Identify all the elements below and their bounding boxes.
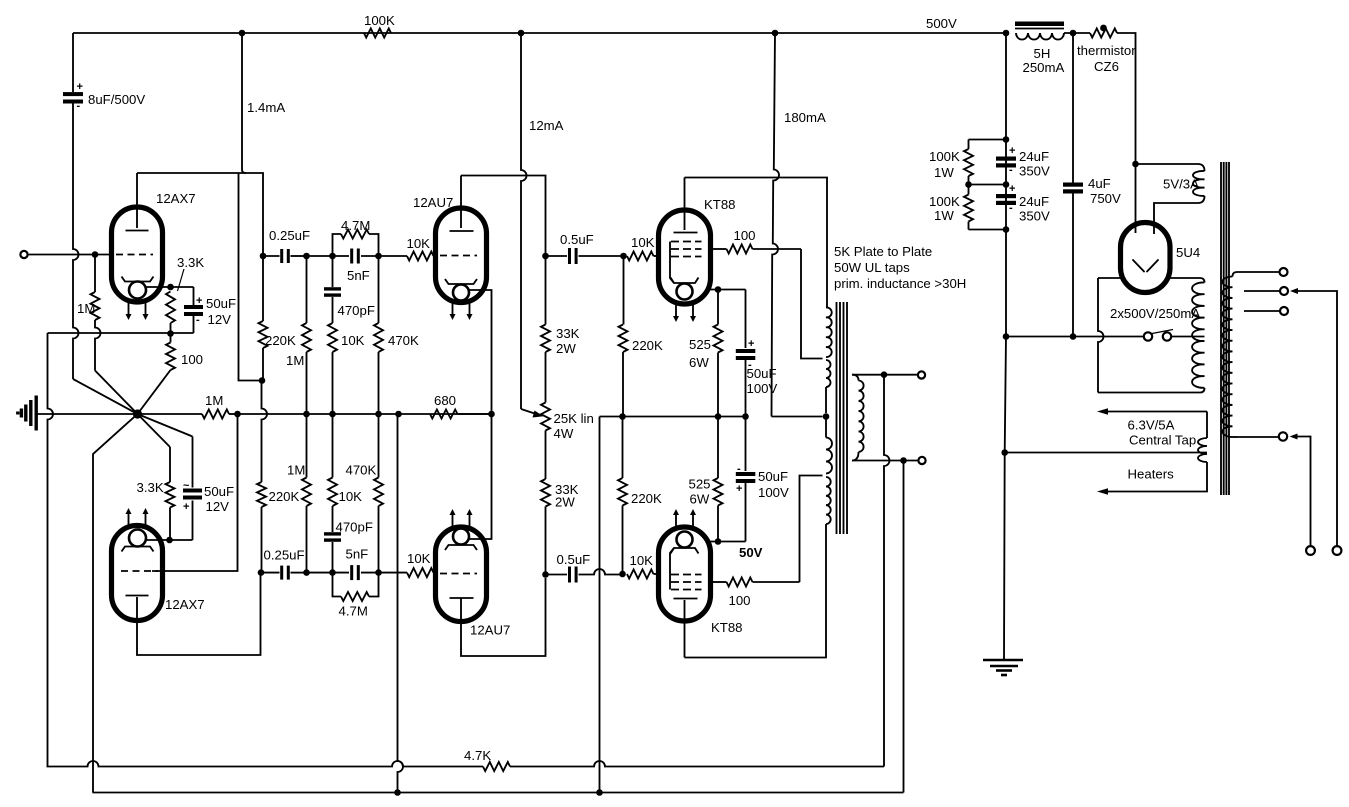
KT88 upper heater pin 1 — [675, 305, 677, 318]
switch contact 1 — [1144, 332, 1152, 340]
wire drop x397 (hops feedback bus) — [398, 414, 404, 793]
svg-text:10K: 10K — [339, 489, 363, 504]
svg-text:220K: 220K — [265, 333, 296, 348]
KT88 upper cathode hat — [671, 278, 699, 284]
wire KT88 upper screen node — [711, 289, 746, 291]
inductor choke 5H 250mA — [1016, 33, 1064, 40]
svg-text:4.7M: 4.7M — [339, 604, 368, 619]
transformer 5V/3A winding — [1193, 171, 1205, 196]
node 4.7M/5nF left — [329, 253, 336, 260]
wire choke to thermistor — [1064, 32, 1090, 34]
wire to 4.7M-B node — [307, 572, 333, 574]
12AU7 upper cathode hat — [445, 279, 477, 284]
svg-text:0.25uF: 0.25uF — [264, 548, 305, 563]
tube 5U4 envelope — [1121, 223, 1171, 293]
wire secondary bottom — [852, 460, 919, 462]
wire 5U4 right plate to HV top — [1170, 278, 1205, 283]
svg-text:10K: 10K — [631, 235, 655, 250]
svg-text:5K Plate to Plate: 5K Plate to Plate — [834, 244, 932, 259]
12AU7 lower cathode hat — [445, 545, 477, 550]
svg-text:~: ~ — [183, 480, 190, 492]
terminal primary tap 1 — [1280, 268, 1288, 276]
svg-text:50uF: 50uF — [206, 296, 236, 311]
node bias drop bottom — [596, 789, 603, 796]
node lower grid branch — [234, 411, 241, 418]
primary bottom arrow — [1290, 434, 1298, 440]
wire 50uF bottom to node wire — [193, 314, 195, 333]
5U4 plate right — [1147, 260, 1158, 272]
heater arrow top — [1097, 408, 1108, 414]
svg-text:-: - — [77, 100, 81, 112]
svg-text:10K: 10K — [407, 551, 431, 566]
terminal output bottom — [918, 457, 925, 464]
resistor 10K lower step — [332, 506, 334, 532]
wire 50uF-C to bias bus — [745, 358, 747, 417]
svg-text:2W: 2W — [556, 341, 576, 356]
wire choke core — [1015, 22, 1064, 27]
node junction 1.4mA branch — [239, 30, 246, 37]
svg-text:12AX7: 12AX7 — [156, 191, 196, 206]
svg-text:4.7K: 4.7K — [464, 748, 491, 763]
svg-text:12AU7: 12AU7 — [470, 623, 510, 638]
12AU7 upper cathode circle — [453, 285, 469, 301]
svg-text:5nF: 5nF — [347, 268, 370, 283]
svg-text:prim. inductance >30H: prim. inductance >30H — [834, 276, 966, 291]
node 3.3K/100 junction — [167, 330, 174, 337]
OPT primary winding upper — [826, 307, 832, 357]
resistor 100K 1W lower — [968, 185, 970, 195]
capacitor 5nF upper — [333, 255, 350, 257]
12AU7 lower grid dashes — [440, 573, 477, 575]
KT88 lower grid dashes row3 — [671, 589, 702, 591]
node 1M-B bottom — [303, 411, 310, 418]
KT88 lower heater pin 2 — [692, 513, 694, 526]
svg-text:3.3K: 3.3K — [137, 480, 164, 495]
svg-text:470K: 470K — [388, 333, 419, 348]
node 0.5uF upper left — [542, 253, 549, 260]
node 220K-B bottom (bias bus) — [619, 413, 626, 420]
terminal primary tap 2 — [1280, 287, 1288, 295]
svg-text:50W UL taps: 50W UL taps — [834, 260, 910, 275]
12AU7 upper anode lead — [460, 176, 462, 229]
node 220K KT88 upper — [620, 253, 627, 260]
svg-text:+: + — [1009, 145, 1015, 157]
svg-text:100K: 100K — [364, 13, 395, 28]
node bleeder mid left — [965, 181, 972, 188]
node coupling junction lower — [303, 569, 310, 576]
svg-text:4uF: 4uF — [1088, 176, 1111, 191]
svg-text:24uF: 24uF — [1019, 194, 1049, 209]
svg-text:5V/3A: 5V/3A — [1163, 177, 1199, 192]
node 0.25uF left — [260, 253, 267, 260]
KT88 lower anode lead — [684, 600, 686, 658]
wire KT88 upper anode to OPT — [685, 178, 828, 308]
svg-text:470pF: 470pF — [336, 520, 373, 535]
capacitor 50uF/100V upper — [745, 290, 747, 349]
svg-text:12AU7: 12AU7 — [413, 195, 453, 210]
svg-text:-: - — [1009, 202, 1013, 214]
capacitor 50uF/12V lower — [138, 414, 193, 437]
node drop-to-bottom junction — [395, 411, 402, 418]
svg-text:100: 100 — [181, 352, 203, 367]
power transformer core — [1220, 162, 1222, 495]
svg-text:10K: 10K — [407, 236, 431, 251]
wire switch to HV winding center — [1172, 336, 1205, 338]
wire thermistor to rectifier — [1117, 33, 1136, 164]
svg-text:-: - — [1009, 164, 1013, 176]
node OPT center tap — [823, 413, 830, 420]
svg-text:33K: 33K — [556, 326, 580, 341]
wire rectifier filament left — [1135, 164, 1137, 223]
wire cross-couple from upper anode — [239, 173, 263, 381]
resistor 680 — [430, 410, 458, 419]
wire 5V winding top — [1136, 164, 1205, 171]
node 470K-B bottom — [375, 411, 382, 418]
resistor 10K grid KT88 upper — [627, 252, 654, 261]
KT88 lower grid dashes row2 — [671, 581, 702, 583]
input terminal — [20, 251, 27, 258]
tube 12AX7 upper envelope — [112, 207, 163, 302]
svg-text:25K lin: 25K lin — [554, 411, 594, 426]
resistor 100 screen upper — [711, 248, 727, 250]
resistor 10K upper step — [332, 297, 334, 323]
12AX7 lower anode lead — [137, 573, 261, 655]
wire left drop x47 — [48, 333, 54, 767]
wire 12AU7 upper anode to 0.5uF node — [461, 176, 546, 254]
KT88 lower grid dashes row1 — [671, 574, 702, 576]
wire input to grid — [28, 254, 114, 256]
capacitor 0.25uF upper — [263, 255, 280, 257]
svg-text:+: + — [196, 295, 202, 307]
capacitor 470pF lower — [332, 542, 334, 573]
switch lever — [1152, 330, 1173, 334]
resistor 220K KT88 lower — [622, 417, 624, 479]
5U4 filament lead left — [1135, 223, 1137, 234]
wire 12AX7 lower grid cross-couple — [152, 414, 238, 571]
wire secondary ground drop — [903, 461, 905, 793]
svg-text:470pF: 470pF — [338, 303, 375, 318]
terminal primary tap 3 — [1280, 307, 1288, 315]
node bleeder top — [1003, 136, 1010, 143]
12AU7 lower heater pin 2 — [469, 513, 471, 526]
12AX7 upper anode lead — [136, 173, 138, 228]
svg-text:350V: 350V — [1019, 209, 1050, 224]
svg-text:1W: 1W — [934, 208, 954, 223]
capacitor 5nF lower — [333, 572, 350, 574]
12AX7 lower cathode circle — [129, 530, 146, 547]
svg-text:8uF/500V: 8uF/500V — [88, 92, 145, 107]
resistor 3.3K upper — [166, 292, 175, 324]
12AX7 lower heater pin 1 — [128, 512, 130, 525]
svg-text:3.3K: 3.3K — [177, 255, 204, 270]
capacitor 470pF upper — [332, 256, 334, 287]
node X drop bottom — [394, 789, 401, 796]
KT88 upper grid dashes row1 — [671, 241, 702, 243]
svg-text:525: 525 — [689, 477, 711, 492]
svg-text:50uF: 50uF — [204, 484, 234, 499]
12AX7 upper cathode hat — [122, 277, 154, 282]
tube 12AX7 lower envelope — [112, 526, 163, 621]
node screen junction upper — [715, 286, 722, 293]
node 12AU7 cathodes junction — [488, 411, 495, 418]
svg-text:220K: 220K — [631, 491, 662, 506]
transformer primary winding — [1233, 272, 1238, 277]
12AX7 upper heater pin 2 — [145, 303, 147, 316]
svg-text:5U4: 5U4 — [1176, 245, 1200, 260]
capacitor 0.25uF lower — [261, 572, 280, 574]
svg-text:750V: 750V — [1090, 191, 1121, 206]
KT88 lower cathode circle — [677, 532, 693, 548]
wire bleeder mid — [969, 184, 1007, 186]
wire bleeder top — [969, 139, 1007, 141]
ground symbol left — [35, 396, 38, 431]
node 220K KT88 lower — [619, 571, 626, 578]
node input grid junction — [92, 251, 99, 258]
svg-text:+: + — [748, 338, 754, 350]
wire cathode 12AX7 lower — [146, 539, 193, 541]
svg-text:525: 525 — [689, 337, 711, 352]
12AX7 lower heater pin 2 — [145, 512, 147, 525]
12AX7 upper cathode circle — [129, 282, 146, 299]
resistor 100K 1W upper — [968, 140, 970, 150]
wire KT88 lower screen node — [711, 541, 746, 543]
transformer HV winding 2x500V — [1192, 282, 1204, 387]
wire 4uF to switch wire — [1072, 193, 1074, 337]
capacitor 24uF/350V upper — [996, 157, 1016, 161]
wire feedback drop (hops secondary bottom) — [884, 375, 890, 767]
potentiometer 25K lin 4W — [545, 253, 547, 325]
wire 6.3V bottom — [1107, 462, 1207, 492]
capacitor 4uF/750V — [1063, 183, 1083, 187]
KT88 lower internal side rail — [670, 548, 674, 590]
wire feedback bus (4.7K) — [47, 761, 484, 766]
svg-text:5H: 5H — [1034, 46, 1051, 61]
svg-text:0.25uF: 0.25uF — [269, 228, 310, 243]
KT88 upper cathode circle — [677, 284, 693, 300]
svg-text:10K: 10K — [630, 553, 654, 568]
wire left rail top — [72, 33, 74, 92]
KT88 upper heater pin 2 — [692, 305, 694, 318]
12AU7 lower cathode circle — [453, 529, 469, 545]
svg-text:+: + — [736, 483, 742, 495]
wire pot wiper arrow — [521, 409, 539, 415]
resistor 1M grid leak upper — [94, 255, 96, 293]
wire X SW arm drop — [93, 414, 138, 793]
thermistor CZ6 — [1090, 29, 1117, 38]
svg-text:+: + — [1009, 183, 1015, 195]
KT88 upper anode lead — [684, 178, 686, 231]
wire screen tap lower — [800, 476, 823, 583]
12AU7 lower anode lead — [461, 578, 546, 656]
terminal mains 2 — [1333, 546, 1342, 555]
wire primary bottom — [1237, 436, 1279, 438]
node coupling junction upper — [303, 253, 310, 260]
wire bias bus — [600, 416, 746, 418]
wire 5V winding bottom — [1154, 196, 1205, 224]
wire bias drop x599 — [599, 417, 601, 793]
OPT core — [836, 302, 838, 534]
svg-text:12mA: 12mA — [529, 118, 564, 133]
svg-text:Heaters: Heaters — [1128, 467, 1175, 482]
tube 12AU7 lower envelope — [436, 527, 487, 622]
wire bottom bus — [93, 792, 904, 794]
12AX7 lower cathode hat — [122, 547, 154, 552]
resistor 10K grid stopper 12AU7 upper — [379, 255, 408, 257]
wire left rail down (hops input & cathode wires) — [73, 104, 79, 380]
heater arrow bottom — [1097, 488, 1108, 494]
KT88 lower cathode hat — [671, 548, 699, 554]
node 4.7M/5nF-B left — [329, 569, 336, 576]
svg-text:1M: 1M — [287, 463, 305, 478]
wire 180mA branch (hops anode & screen wires) — [772, 33, 780, 417]
svg-text:0.5uF: 0.5uF — [557, 552, 591, 567]
node 5V winding junction — [1132, 161, 1139, 168]
KT88 lower heater pin 1 — [675, 513, 677, 526]
wire main HT rail — [1005, 33, 1007, 337]
svg-text:12V: 12V — [208, 312, 232, 327]
OPT primary winding lower — [825, 419, 827, 438]
tube 12AU7 upper envelope — [436, 208, 487, 303]
node 4.7M/5nF right — [375, 253, 382, 260]
resistor 1M upper-B — [306, 256, 308, 323]
wire 6.3V top — [1206, 412, 1208, 439]
wire 4uF branch — [1072, 33, 1074, 183]
svg-text:24uF: 24uF — [1019, 149, 1049, 164]
svg-text:500V: 500V — [926, 16, 957, 31]
resistor 1M lower-B — [306, 506, 308, 573]
wire 50uF-D to screen node — [745, 481, 747, 542]
wire 12mA branch (hops anode wire) — [521, 33, 527, 409]
svg-text:50V: 50V — [739, 545, 763, 560]
resistor 100K (B+ decoupling) — [364, 29, 391, 38]
svg-text:100K: 100K — [929, 149, 960, 164]
resistor 4.7M upper — [333, 234, 342, 256]
wire 12AU7 lower cathode — [469, 414, 492, 539]
wire X bus east — [238, 413, 492, 415]
node bleeder bottom — [1003, 226, 1010, 233]
capacitor 50uF/12V upper — [193, 287, 195, 307]
svg-text:1M: 1M — [77, 301, 95, 316]
wire 5U4 left plate to HV bottom (hops switch wire) — [1098, 277, 1121, 279]
wire anode node down — [262, 253, 264, 256]
pot wiper arrowhead — [533, 411, 544, 418]
svg-text:12AX7: 12AX7 — [165, 597, 205, 612]
wire to 4.7M node — [307, 255, 333, 257]
wire primary tap 3 — [1244, 310, 1280, 312]
node choke input (500V) — [1003, 30, 1010, 37]
svg-text:100V: 100V — [758, 485, 789, 500]
wire central tap — [1005, 452, 1207, 454]
node 10K/470pF bottom — [329, 411, 336, 418]
svg-text:6W: 6W — [690, 492, 710, 507]
resistor 525 6W upper — [717, 290, 719, 325]
svg-text:+: + — [77, 81, 83, 93]
12AU7 upper heater pin 2 — [469, 304, 471, 317]
node junction 180mA branch — [772, 30, 779, 37]
resistor 220K upper-A — [262, 256, 264, 321]
node secondary bottom junction — [900, 457, 907, 464]
wire cathode 12AX7 upper — [146, 286, 194, 288]
svg-text:KT88: KT88 — [704, 197, 736, 212]
capacitor 0.5uF upper — [546, 255, 568, 257]
wire 180mA to OPT center tap — [772, 416, 823, 418]
12AX7 lower plate bar — [126, 595, 149, 597]
resistor 525 6W lower — [717, 417, 719, 479]
wire 220K-B drop (hops X bus) — [262, 381, 268, 483]
node central tap on HT ground rail — [1001, 449, 1008, 456]
svg-text:4.7M: 4.7M — [341, 218, 370, 233]
svg-text:250mA: 250mA — [1023, 60, 1065, 75]
node 220K cross-couple junction — [259, 377, 266, 384]
12AX7 upper heater pin 1 — [128, 303, 130, 316]
KT88 upper grid dashes row2 — [671, 248, 702, 250]
resistor 100 screen lower — [711, 581, 727, 583]
12AU7 upper plate bar — [450, 230, 474, 232]
svg-text:CZ6: CZ6 — [1094, 59, 1119, 74]
KT88 upper plate bar — [674, 232, 698, 234]
terminal mains 1 — [1306, 546, 1315, 555]
ground symbol PSU — [983, 659, 1023, 662]
resistor 3.3K lower — [138, 414, 171, 447]
node bleeder mid right — [1003, 181, 1010, 188]
node X phase splitter common — [133, 409, 142, 418]
wire screen tap upper — [801, 249, 823, 359]
resistor 33K lower — [541, 479, 550, 507]
wire 12AU7 upper cathode — [469, 290, 492, 414]
capacitor 8uF/500V — [63, 92, 83, 96]
resistor 220K KT88 upper — [623, 256, 625, 325]
tube KT88 lower envelope — [659, 527, 711, 621]
svg-text:100K: 100K — [929, 194, 960, 209]
svg-text:220K: 220K — [632, 338, 663, 353]
svg-text:1.4mA: 1.4mA — [247, 100, 285, 115]
node 4.7M/5nF-B right — [375, 569, 382, 576]
wire bleeder bottom — [969, 229, 1007, 231]
resistor 10K grid stopper 12AU7 lower — [379, 572, 408, 574]
resistor 4.7M lower — [333, 573, 342, 597]
12AX7 lower grid dashes — [121, 570, 158, 572]
svg-text:-: - — [737, 463, 741, 475]
5U4 filament lead right — [1153, 224, 1155, 234]
terminal primary bottom — [1279, 432, 1287, 440]
svg-text:5nF: 5nF — [346, 547, 369, 562]
svg-text:+: + — [183, 501, 189, 513]
capacitor 50uF/100V lower — [745, 417, 747, 472]
12AU7 lower heater pin 1 — [452, 513, 454, 526]
node switch wire left — [1003, 333, 1010, 340]
KT88 upper internal side rail — [670, 242, 674, 284]
node junction 12mA branch — [518, 30, 525, 37]
capacitor 24uF/350V lower — [996, 194, 1016, 198]
resistor 220K lower-A — [257, 482, 266, 507]
svg-text:2x500V/250mA: 2x500V/250mA — [1110, 306, 1200, 321]
resistor 100 upper — [170, 334, 172, 343]
resistor 10K grid KT88 lower — [627, 570, 654, 579]
terminal output top — [918, 371, 925, 378]
node 0.25uF-B left — [258, 569, 265, 576]
wire switch left — [1006, 336, 1144, 338]
svg-text:4W: 4W — [554, 426, 574, 441]
wire ground to X node — [38, 413, 138, 415]
svg-text:100: 100 — [729, 593, 751, 608]
node 50uF-C bottom — [742, 413, 749, 420]
wire 1.4mA branch — [242, 33, 246, 173]
node secondary top junction — [881, 371, 888, 378]
tube KT88 upper envelope — [659, 210, 711, 304]
resistor 470K lower — [378, 506, 380, 573]
svg-text:6.3V/5A: 6.3V/5A — [1128, 418, 1175, 433]
svg-text:-: - — [196, 314, 200, 326]
